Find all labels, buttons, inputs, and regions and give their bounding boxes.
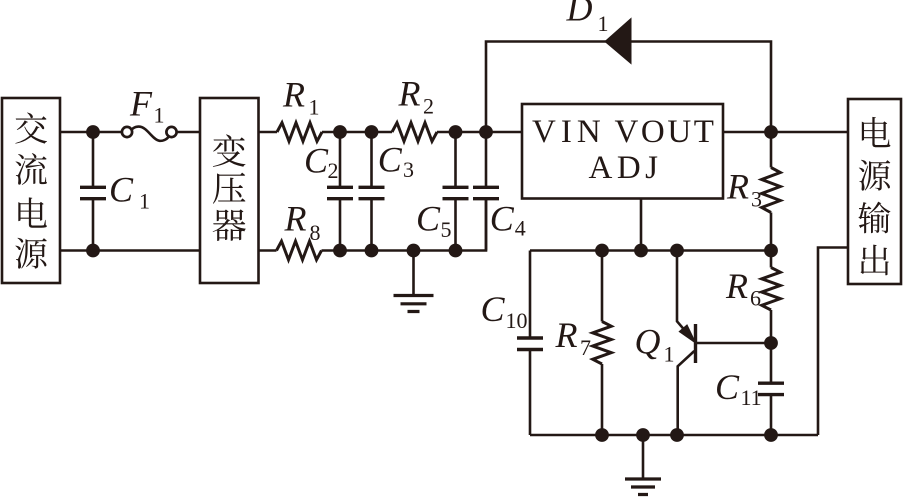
label C2 [304, 141, 339, 184]
svg-text:D: D [566, 0, 593, 29]
svg-text:Q: Q [635, 322, 661, 362]
svg-text:VOUT: VOUT [615, 114, 717, 150]
svg-text:R: R [725, 266, 748, 306]
wire filter bottom rail [322, 199, 487, 251]
wire ADJ rail [530, 249, 771, 252]
svg-text:C: C [715, 367, 740, 407]
label R3 [726, 167, 762, 212]
svg-text:11: 11 [741, 385, 762, 410]
svg-text:6: 6 [750, 286, 761, 311]
label R8 [284, 199, 321, 246]
capacitor C3 [359, 132, 385, 251]
label R7 [555, 315, 592, 360]
resistor R3 [762, 132, 781, 251]
node junction VOUT/R3 [764, 125, 778, 139]
svg-text:R: R [726, 167, 749, 207]
label C5 [416, 199, 452, 243]
svg-text:5: 5 [441, 217, 452, 242]
label D1 [566, 0, 609, 36]
capacitor C4 [473, 132, 499, 251]
label F1 [129, 84, 165, 128]
label C3 [378, 140, 414, 183]
svg-text:7: 7 [580, 335, 591, 360]
label Q1 [635, 322, 675, 367]
node junction C11 bottom [764, 428, 778, 442]
label R2 [398, 74, 435, 119]
node junction ground bottom [636, 428, 650, 442]
node junction ground tap [407, 244, 421, 258]
node junction ADJ/R7 [595, 244, 609, 258]
svg-text:C: C [109, 170, 134, 210]
capacitor C2 [327, 132, 353, 251]
svg-text:R: R [284, 199, 307, 239]
node junction base/R6/C11 [764, 336, 778, 350]
wire bottom rail [530, 434, 818, 437]
AC source box 交流电源 [2, 98, 60, 283]
node junction Q1 collector [670, 244, 684, 258]
resistor R7 [593, 251, 612, 436]
pin ADJ lead [640, 199, 643, 251]
svg-text:10: 10 [506, 308, 528, 333]
svg-text:1: 1 [154, 103, 165, 128]
capacitor C11 [758, 343, 784, 435]
node junction C3 top [365, 125, 379, 139]
svg-text:F: F [129, 84, 153, 124]
node junction C2 bottom [333, 244, 347, 258]
resistor R2 [392, 123, 437, 142]
node junction C2 top [333, 125, 347, 139]
fuse F1 [122, 127, 177, 141]
wire AC top to fuse [60, 131, 122, 134]
label C4 [490, 199, 526, 241]
output box 电源输出 [848, 99, 901, 284]
svg-text:1: 1 [664, 341, 675, 366]
svg-text:1: 1 [598, 11, 609, 36]
label R6 [725, 266, 761, 311]
svg-text:1: 1 [309, 95, 320, 120]
svg-text:C: C [378, 140, 403, 180]
node junction bottom of C1 [86, 244, 100, 258]
svg-text:3: 3 [751, 187, 762, 212]
svg-text:R: R [282, 75, 305, 115]
svg-text:2: 2 [328, 158, 339, 183]
transistor Q1 [677, 251, 771, 436]
svg-text:C: C [304, 141, 329, 181]
node junction top of C1 [86, 125, 100, 139]
node junction R7 bottom [595, 428, 609, 442]
diode D1 [605, 19, 631, 64]
capacitor C10 [517, 251, 543, 436]
resistor R6 [762, 251, 781, 344]
node junction C5 bottom [449, 244, 463, 258]
wire R1 to R2 [322, 131, 392, 134]
wire VOUT to output box [723, 131, 848, 134]
svg-text:ADJ: ADJ [589, 150, 663, 186]
transformer box 变压器 [200, 98, 259, 283]
node junction ADJ pin [634, 244, 648, 258]
svg-text:2: 2 [423, 94, 434, 119]
wire R2 to regulator [437, 131, 522, 134]
svg-text:4: 4 [515, 216, 526, 241]
svg-text:C: C [490, 199, 515, 239]
svg-text:8: 8 [310, 220, 321, 245]
svg-text:3: 3 [403, 157, 414, 182]
resistor R8 [277, 241, 322, 260]
resistor R1 [277, 123, 322, 142]
node junction C5 top [449, 125, 463, 139]
label C10 [481, 289, 528, 333]
wire fuse to transformer [177, 131, 200, 134]
node junction C3 bottom [365, 244, 379, 258]
regulator U1 box VIN VOUT ADJ [522, 104, 723, 199]
label C1 [109, 170, 150, 214]
svg-text:1: 1 [139, 189, 150, 214]
wire transformer to R8 [259, 249, 277, 252]
svg-text:C: C [481, 289, 506, 329]
capacitor C1 [80, 132, 106, 251]
capacitor C5 [443, 132, 469, 251]
label C11 [715, 367, 762, 410]
wire AC bottom to transformer [60, 249, 200, 252]
node junction C4 / D1 riser [479, 125, 493, 139]
ground bottom [625, 435, 661, 495]
wire transformer to R1 [259, 131, 278, 134]
ground filter [394, 251, 434, 312]
label R1 [282, 75, 320, 120]
svg-text:C: C [416, 199, 441, 239]
svg-text:R: R [398, 74, 421, 114]
svg-text:VIN: VIN [532, 114, 606, 150]
wire output return riser [818, 248, 848, 436]
svg-text:R: R [555, 315, 578, 355]
node junction Q1 emitter bottom [670, 428, 684, 442]
node junction R3/R6/ADJ rail [764, 244, 778, 258]
wire D1 loop [486, 42, 771, 133]
